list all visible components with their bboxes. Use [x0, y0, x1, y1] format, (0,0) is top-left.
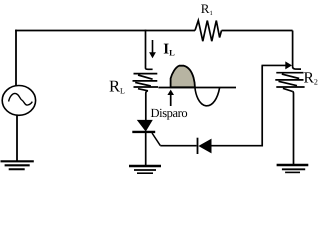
wire left vertical — [15, 30, 17, 87]
wire middle vertical drop — [146, 30, 153, 70]
wire top rail left segment — [15, 30, 195, 32]
wire top rail right segment — [222, 30, 293, 32]
arrow IL — [149, 40, 156, 58]
wire rail down to R2 — [293, 31, 301, 70]
wire R2 bottom lead — [292, 92, 295, 166]
wire diode to wiper corner — [211, 65, 262, 145]
wire RL bottom lead — [146, 91, 148, 121]
resistor RL — [133, 74, 159, 91]
svg-text:R1: R1 — [201, 1, 213, 17]
resistor R2 — [275, 73, 304, 92]
SCR Q1 — [132, 120, 155, 131]
diode D1 — [198, 138, 212, 154]
waveform negative half cycle — [195, 87, 220, 106]
wire SCR cathode down — [145, 133, 147, 166]
svg-text:IL: IL — [163, 42, 175, 58]
svg-text:Disparo: Disparo — [151, 106, 188, 120]
svg-text:R2: R2 — [304, 70, 318, 87]
arrow Disparo — [167, 90, 174, 106]
ground (right) — [277, 165, 309, 172]
svg-text:RL: RL — [109, 77, 125, 96]
wire gate to diode — [160, 145, 196, 147]
potentiometer wiper arrow R2 — [262, 61, 293, 69]
AC source V1 — [2, 86, 35, 116]
waveform axis — [158, 87, 236, 89]
waveform shaded firing region — [171, 66, 195, 88]
ground (middle) — [129, 166, 161, 173]
SCR gate lead — [152, 133, 160, 146]
ground (left) — [1, 161, 34, 169]
resistor R1 — [195, 21, 222, 42]
wire below source — [16, 115, 18, 161]
